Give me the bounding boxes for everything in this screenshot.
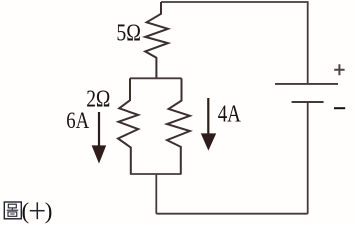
svg-text:2Ω: 2Ω [86,86,110,112]
svg-text:(: ( [22,199,30,224]
current arrow 4A (right, down) [201,98,216,151]
wire parallel box bottom [130,173,182,175]
svg-text:5Ω: 5Ω [116,20,141,46]
svg-text:): ) [45,199,53,224]
wire parallel box top [130,77,182,79]
current arrow 6A (left, down) [92,112,107,164]
minus sign [334,107,345,109]
battery negative plate (short) [292,101,324,103]
wire top horizontal and right drop to battery + [161,2,308,83]
wire bottom horizontal [156,213,307,215]
plus sign [334,64,344,75]
resistor R3 right branch zigzag with leads [167,78,190,174]
wire right vertical from battery - to bottom [307,102,309,214]
svg-text:6A: 6A [66,108,89,134]
battery positive plate (long) [275,83,338,85]
resistor R2 2ohm left branch zigzag with leads [118,78,138,174]
wire center stem below box [155,174,157,214]
figure caption: glyph tu (figure) drawn [4,202,21,219]
svg-text:4A: 4A [218,102,242,128]
resistor R1 5ohm zigzag with leads [145,2,168,78]
